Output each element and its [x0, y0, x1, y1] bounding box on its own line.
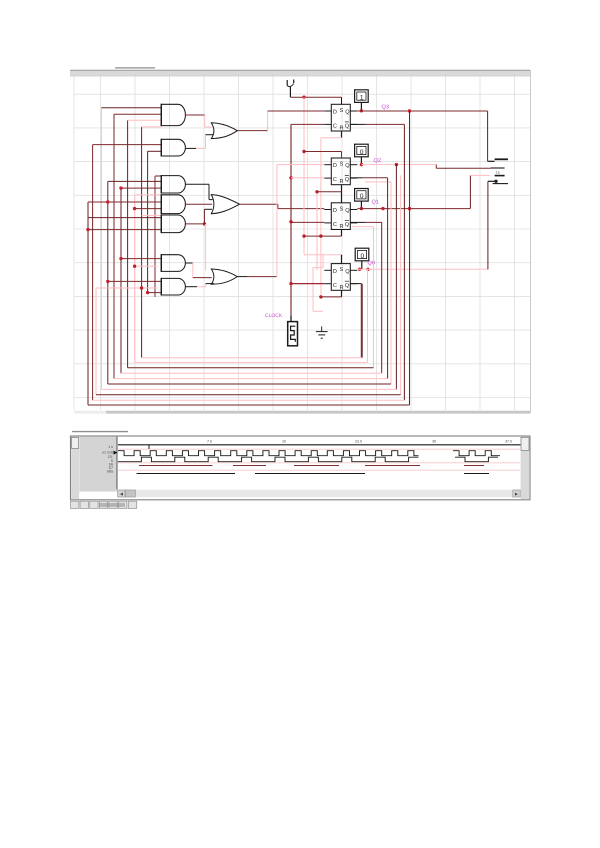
wire FF2 S drive: [302, 150, 341, 158]
and-gate U2: [161, 139, 185, 156]
and-gate U9: [161, 278, 185, 295]
svg-text:0: 0: [360, 149, 364, 156]
svg-text:S: S: [340, 108, 344, 114]
vcc symbol: [287, 80, 294, 98]
svg-text:Q3: Q3: [382, 104, 389, 110]
svg-text:Q: Q: [345, 283, 350, 289]
net Q2b wire: [350, 177, 387, 179]
svg-text:Q: Q: [345, 110, 350, 116]
svg-text:7.5: 7.5: [207, 440, 212, 444]
svg-text:►: ►: [514, 492, 519, 498]
or-gate U3: [211, 123, 237, 139]
wire pink trunk x276.9: [276, 165, 278, 277]
wire pink trunk x205: [205, 224, 207, 270]
junction dots on left bundle: [86, 186, 149, 294]
svg-text:0: 0: [361, 253, 365, 260]
wire U1 out to U3 in: [186, 115, 212, 127]
clock source V2: [288, 322, 298, 346]
svg-text:x1 x10: x1 x10: [102, 451, 113, 455]
net Q2b pink pair: [365, 181, 391, 183]
svg-text:37.5: 37.5: [505, 440, 512, 444]
wire bus (right feedback verticals): [362, 111, 409, 405]
analyzer signal names: [102, 445, 117, 474]
wire FF2R-FF3S link: [315, 185, 341, 203]
svg-text:58a: 58a: [107, 470, 114, 474]
taskbar icons: [71, 501, 137, 508]
wire U10 out to pink trunk: [237, 276, 277, 278]
svg-text:S: S: [340, 267, 344, 273]
svg-text:C: C: [333, 283, 337, 289]
and-gate U6: [161, 215, 185, 233]
net Q1 wire: [357, 207, 470, 210]
net Q2 wire (pink): [360, 163, 437, 166]
wire FF4 C input: [291, 283, 324, 285]
wire U2 out to U3 in: [186, 135, 214, 149]
battery V1: [491, 159, 508, 183]
svg-text:Q2: Q2: [374, 158, 381, 164]
svg-text:S: S: [340, 162, 344, 168]
flip-flop FF3: [331, 203, 350, 230]
and-gate U4: [161, 176, 185, 193]
svg-text:Q: Q: [345, 163, 350, 169]
and-gate U8: [161, 255, 185, 272]
wire pink jog near FF4 D: [313, 255, 323, 311]
wire pink trunk x320.9: [320, 138, 322, 297]
svg-text:22.5: 22.5: [355, 440, 362, 444]
wire FF3 C input: [291, 221, 324, 223]
svg-text:S: S: [340, 206, 344, 212]
trace axis: [118, 445, 521, 449]
ground symbol: [316, 326, 328, 338]
wire FF4 S drive (pink): [304, 255, 342, 264]
analyzer time labels: [207, 440, 512, 444]
svg-text:Q: Q: [345, 177, 350, 183]
net Q0 wire (pink): [357, 268, 488, 271]
svg-text:30: 30: [432, 440, 436, 444]
flip-flop FF2: [331, 158, 350, 185]
trace Q0: [118, 457, 419, 462]
or-gate U10: [211, 269, 237, 284]
probe X1: [355, 90, 369, 103]
wire U3 out to node D3: [237, 111, 267, 131]
svg-text:Q: Q: [345, 222, 350, 228]
svg-text:D: D: [333, 208, 337, 214]
trace Q2: [137, 473, 490, 475]
net Q3b wire: [350, 123, 404, 125]
wire VCC to FF1 S: [290, 96, 341, 105]
net Q1 to battery (pink): [470, 175, 490, 208]
svg-text:R: R: [340, 224, 344, 230]
wire U4 out to U7 in: [186, 184, 213, 199]
probe X3: [355, 189, 369, 202]
net Q0b wire: [350, 284, 361, 358]
net Q2 to battery: [436, 165, 490, 169]
svg-text:1: 1: [360, 94, 364, 101]
svg-text:C: C: [333, 177, 337, 183]
svg-text:Q: Q: [345, 124, 350, 130]
wire U8 out to U10 in: [186, 263, 212, 278]
svg-text:R: R: [340, 179, 344, 185]
net Q0 to battery: [488, 180, 498, 270]
trace clock: [118, 451, 419, 456]
wire U6 out to U7 in: [186, 209, 212, 225]
wire FF3 R drive: [302, 230, 341, 238]
svg-text:D: D: [333, 163, 337, 169]
wire FF4 R drive: [319, 290, 341, 298]
wire bus (bottom feedback horizontals): [88, 358, 410, 405]
svg-text:C: C: [333, 124, 337, 130]
net Q1b pink pair: [352, 226, 374, 228]
net Q3 wire: [357, 109, 487, 113]
svg-text:0: 0: [360, 193, 364, 200]
wire pink trunk x304: [303, 97, 305, 254]
analyzer pink baselines: [118, 449, 520, 470]
probe X2: [355, 144, 369, 157]
clock trunk wire: [289, 124, 292, 321]
or-gate U7: [211, 195, 239, 214]
net Q1b wire: [350, 221, 381, 223]
and-gate U5: [161, 195, 185, 214]
svg-text:Q: Q: [345, 269, 350, 275]
wire U7 out to FF3 D: [240, 204, 325, 208]
svg-text:C: C: [333, 222, 337, 228]
wire stubs to gate inputs: [88, 108, 161, 293]
wire bus (left feedback verticals): [88, 108, 155, 405]
svg-text:CLOCK: CLOCK: [265, 313, 283, 319]
svg-text:D: D: [333, 269, 337, 275]
svg-text:Q1: Q1: [372, 199, 379, 205]
wire U5 out to U7 in: [186, 203, 212, 205]
wire U9 out to U10 in: [186, 284, 214, 287]
svg-text:◄: ◄: [119, 492, 124, 498]
svg-text:15: 15: [282, 440, 286, 444]
net Q3 to battery: [488, 111, 495, 161]
wire FF1 D input: [268, 110, 325, 112]
wire FF1 R to pink: [321, 131, 342, 138]
wire FF2 C input (pink): [291, 177, 324, 179]
trace Q1: [139, 465, 484, 467]
svg-text:R: R: [340, 285, 344, 291]
wire FF1 C input: [291, 123, 324, 125]
analyzer window frame: [71, 432, 531, 500]
svg-text:D: D: [333, 110, 337, 116]
and-gate U1: [161, 104, 185, 125]
flip-flop FF4: [331, 264, 350, 291]
svg-text:Q: Q: [345, 208, 350, 214]
probe X4: [355, 248, 369, 261]
wire pink trunk x317: [316, 192, 318, 271]
svg-text:1 s: 1 s: [108, 445, 113, 449]
wire FF2 D input (pink): [277, 164, 324, 166]
flip-flop FF1: [331, 104, 350, 131]
